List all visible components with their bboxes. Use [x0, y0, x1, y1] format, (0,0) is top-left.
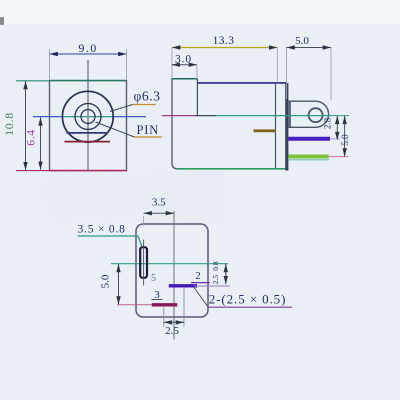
note underline: [208, 306, 293, 308]
svg-text:6.4: 6.4: [26, 129, 38, 145]
svg-text:9.0: 9.0: [78, 41, 97, 55]
small right dimension line: [225, 264, 227, 284]
upper lead pin: [288, 137, 330, 141]
extension of bottom edge for 10.8 dim: [16, 170, 49, 172]
dimension line top 5.0: [287, 47, 332, 49]
extension line pin3 center for 2.5 dim: [163, 308, 165, 328]
side body back face line: [275, 83, 277, 169]
upper lead extension line: [330, 138, 340, 140]
dimension line 9.0: [50, 53, 127, 55]
extension line left of 9.0 dim: [49, 49, 51, 80]
underline of PIN label: [135, 136, 163, 138]
vertical centerline of front view: [87, 60, 89, 172]
extension line left for 13.3 dim: [171, 48, 173, 78]
jack body front face outline top edge: [50, 80, 127, 82]
horizontal centerline of front view middle part: [64, 116, 112, 118]
jack body front face outline right edge: [126, 80, 128, 171]
dimension line 6.4: [40, 117, 42, 170]
svg-text:3.5: 3.5: [152, 197, 166, 209]
svg-text:2.5: 2.5: [211, 275, 220, 285]
pin 2 pad: [169, 284, 197, 287]
extension line right for top 5.0 dim: [330, 48, 332, 101]
label 3 underline: [152, 299, 163, 301]
SIDE VIEW GROUP: [162, 35, 350, 171]
middle terminal pin: [254, 129, 276, 132]
svg-text:5: 5: [151, 273, 156, 284]
pin 3 pad: [152, 303, 178, 306]
slot centerline vertical: [143, 240, 145, 286]
scan speck at left edge: [0, 17, 4, 25]
barrel outer circle: [62, 91, 113, 142]
leader line from PIN to pin circle: [96, 122, 135, 137]
extension line left for top 5.0 dim: [286, 48, 288, 100]
underline of phi 6.3 label: [133, 104, 156, 106]
inner chord line: [67, 132, 109, 134]
side centerline middle segment: [195, 115, 216, 117]
extension line right of 9.0 dim: [126, 49, 128, 80]
leader line from phi 6.3 to outer circle: [110, 105, 133, 112]
horizontal centerline of front view right part: [112, 116, 146, 118]
extension line right for 13.3 dim: [276, 48, 278, 82]
lower lead pin: [288, 155, 328, 159]
jack body front face outline left edge: [49, 80, 51, 171]
label 2 underline: [191, 282, 210, 284]
lower lead fringe: [289, 159, 329, 161]
svg-text:φ6.3: φ6.3: [134, 89, 161, 104]
faint scan texture: [42, 170, 227, 222]
lower chord line: [65, 141, 111, 143]
center pin circle: [81, 110, 95, 124]
mounting plate bar: [285, 83, 288, 171]
svg-text:10.8: 10.8: [2, 112, 16, 136]
dimension line 2.8 right: [336, 116, 338, 139]
svg-text:2.8: 2.8: [323, 117, 333, 129]
solder tab outline: [288, 101, 328, 127]
side centerline left segment: [162, 115, 195, 117]
side body left edge: [172, 79, 178, 169]
bottom view body outline: [136, 224, 208, 317]
side body main top edge: [197, 82, 286, 84]
side body barrel step top edge: [172, 78, 198, 80]
svg-text:13.3: 13.3: [213, 35, 235, 47]
svg-text:0.8: 0.8: [211, 261, 220, 271]
leader diagonal from pin 2 to note: [194, 287, 208, 307]
mounting slot: [140, 247, 147, 278]
FRONT VIEW GROUP: [2, 41, 162, 172]
extension line pin2 center for 2.5 dim: [183, 288, 185, 327]
svg-text:PIN: PIN: [137, 123, 160, 137]
svg-text:5.0: 5.0: [100, 274, 112, 288]
dimension line 3.5: [144, 212, 174, 214]
extension line for 3.5 dim: [143, 216, 145, 226]
svg-text:2.5: 2.5: [165, 325, 179, 337]
barrel step inner vertical line: [196, 79, 198, 116]
svg-text:5.0: 5.0: [340, 134, 350, 146]
horizontal centerline of front view left part: [33, 116, 64, 118]
BOTTOM VIEW GROUP: [78, 197, 293, 340]
svg-text:2: 2: [195, 270, 201, 282]
dimension line 10.8: [25, 81, 27, 170]
solder tab root shading: [288, 101, 291, 127]
dimension line right 5.0: [344, 116, 346, 156]
pin 3 extension line: [117, 304, 152, 306]
lower lead extension line: [329, 156, 349, 158]
extension of top edge for 10.8 dim: [16, 80, 49, 82]
solder tab hole: [309, 108, 323, 122]
dimension line 13.3: [172, 47, 277, 49]
svg-text:5.0: 5.0: [295, 35, 309, 47]
svg-text:3.5 × 0.8: 3.5 × 0.8: [78, 224, 126, 236]
dimension line 2.5: [164, 321, 184, 323]
side body bottom edge: [178, 168, 289, 170]
barrel middle circle: [75, 104, 101, 130]
side centerline extension right: [332, 115, 349, 117]
side centerline right segment: [216, 115, 332, 117]
leader line from 3.5 x 0.8 label to slot: [78, 236, 142, 246]
pin 2 extension line: [194, 285, 230, 287]
dimension line left 5.0: [118, 264, 120, 305]
bottom view vertical centerline: [173, 211, 175, 340]
extension line right for 3.0 dim: [196, 65, 198, 79]
dimension line 3.0: [172, 64, 197, 66]
bottom view horizontal centerline: [111, 263, 228, 265]
jack body front face outline bottom edge: [49, 170, 127, 172]
svg-text:2-(2.5 × 0.5): 2-(2.5 × 0.5): [209, 292, 287, 307]
